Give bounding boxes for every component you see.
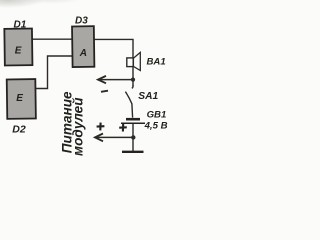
svg-text:A: A [79, 48, 87, 59]
svg-text:E: E [16, 93, 23, 104]
svg-text:E: E [15, 45, 22, 56]
svg-text:SA1: SA1 [138, 91, 158, 102]
svg-text:BA1: BA1 [147, 56, 166, 67]
svg-text:модулей: модулей [71, 97, 86, 156]
svg-text:D3: D3 [75, 16, 88, 27]
svg-text:4,5 В: 4,5 В [144, 121, 168, 132]
svg-text:D1: D1 [14, 20, 27, 31]
svg-text:D2: D2 [12, 123, 26, 135]
svg-text:GB1: GB1 [147, 110, 167, 121]
